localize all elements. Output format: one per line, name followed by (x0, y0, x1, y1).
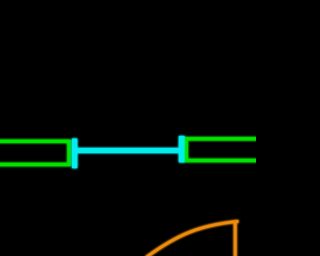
resistor R1 (body, clipped at left edge) (0, 141, 69, 164)
pin terminal of R2 (left pin) (179, 136, 185, 162)
pin terminal of R1 (right pin) (72, 139, 77, 169)
wire segment (vertical lead of circular component) (234, 221, 237, 256)
resistor R2 (body, clipped at right edge) (186, 139, 266, 161)
circular component arc (clipped circle outline) (146, 221, 239, 256)
wire W1 (75, 148, 182, 153)
